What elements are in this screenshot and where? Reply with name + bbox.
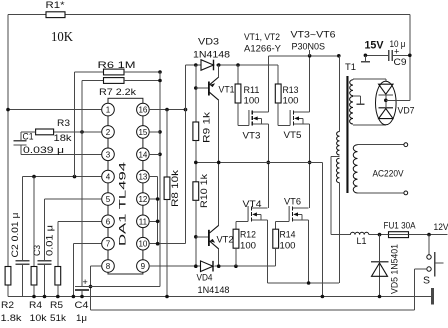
transformer T1 primary winding	[331, 56, 356, 283]
diode VD5 1N5401	[371, 235, 401, 297]
svg-text:14: 14	[138, 150, 147, 159]
svg-text:VT2: VT2	[217, 235, 234, 246]
ground terminal bar	[431, 288, 434, 305]
wire VT6 source riser	[308, 220, 310, 283]
svg-text:4: 4	[106, 173, 111, 182]
resistor R6	[75, 60, 162, 177]
svg-text:1.8k: 1.8k	[1, 313, 22, 323]
resistor R12 100	[233, 222, 256, 267]
svg-text:1N4148: 1N4148	[198, 285, 230, 296]
wire switch bottom contact to remote line	[414, 269, 427, 310]
wire pin3 net	[21, 145, 102, 156]
T1 secondary center tap stub	[353, 96, 365, 104]
svg-text:1N4148: 1N4148	[193, 50, 230, 61]
wire pin12 stub	[149, 197, 159, 201]
svg-text:VD5 1N5401: VD5 1N5401	[390, 244, 401, 294]
label VT3~VT6 P30N0S	[291, 30, 336, 53]
inductor L1	[350, 232, 368, 247]
wire pin8 riser	[89, 266, 102, 310]
wire VT3 drain riser	[267, 56, 269, 112]
U1 pin 3	[102, 148, 115, 161]
svg-text:5: 5	[106, 195, 111, 204]
svg-text:8: 8	[106, 262, 111, 271]
transistor VT5 (MOSFET)	[278, 110, 309, 141]
wire VT3 source to VT4 drain	[267, 124, 271, 208]
svg-text:C1: C1	[23, 131, 34, 142]
svg-text:100: 100	[244, 96, 260, 107]
transformer T1 output winding AC220V	[353, 145, 404, 193]
svg-text:0.01 μ: 0.01 μ	[45, 225, 56, 256]
svg-text:100: 100	[280, 241, 296, 252]
wire source bus y=283	[268, 281, 340, 285]
capacitor C9 10u	[389, 39, 412, 68]
svg-text:AC220V: AC220V	[373, 169, 405, 180]
wire pin11 stub	[149, 220, 159, 224]
svg-text:R8 10k: R8 10k	[170, 170, 181, 207]
svg-text:DA1 TL494: DA1 TL494	[118, 162, 129, 246]
svg-text:VT1, VT2: VT1, VT2	[244, 32, 280, 43]
transistor VT4 (MOSFET)	[236, 199, 268, 222]
U1 pin 8	[102, 260, 115, 273]
wire bus A x=185.5	[185, 65, 187, 244]
svg-text:10K: 10K	[51, 29, 73, 44]
svg-text:1μ: 1μ	[76, 313, 87, 323]
transistor VT3 (MOSFET)	[238, 110, 268, 142]
op-amp U1 DA1 TL494 body	[108, 98, 143, 274]
svg-text:R7 2.2k: R7 2.2k	[99, 87, 136, 98]
switch S	[423, 235, 444, 287]
svg-text:12V: 12V	[434, 222, 448, 233]
terminal AC220V top	[404, 143, 408, 147]
node 15V supply stub	[361, 40, 389, 62]
capacitor C4	[75, 277, 161, 324]
wire VT5 drain riser	[309, 56, 311, 112]
svg-text:10: 10	[138, 240, 147, 249]
svg-text:VT6: VT6	[284, 197, 301, 208]
svg-text:0.039 μ: 0.039 μ	[23, 145, 64, 156]
svg-text:100: 100	[283, 96, 299, 107]
svg-text:+: +	[83, 277, 88, 287]
wire left vertical bus x=8	[7, 15, 9, 297]
wire pin16 net	[149, 108, 187, 112]
transformer T1 core	[346, 76, 348, 193]
svg-text:C4: C4	[75, 300, 89, 311]
resistor R3	[36, 118, 72, 144]
resistor R8	[164, 110, 181, 297]
wire top feedback rail	[8, 14, 410, 16]
resistor R7	[82, 78, 160, 132]
resistor R1	[46, 0, 74, 44]
U1 pin 13	[137, 170, 150, 183]
U1 pin 11	[137, 215, 150, 228]
svg-text:9: 9	[141, 262, 146, 271]
wire bus R6/R7/p15/p14 to C4 x=160	[158, 72, 162, 287]
wire pin15 stub	[149, 131, 160, 133]
svg-text:C2 0.01 μ: C2 0.01 μ	[10, 213, 21, 258]
U1 pin 6	[102, 215, 115, 228]
wire gate rail top y=65	[186, 63, 279, 67]
diode VD3 1N4148	[193, 37, 230, 71]
svg-text:S: S	[423, 276, 430, 287]
U1 pin 9	[137, 260, 150, 273]
wire pin6 net	[58, 220, 102, 222]
svg-text:+: +	[394, 46, 399, 56]
svg-text:15V: 15V	[365, 40, 385, 52]
transformer T1 secondary winding (15V)	[350, 79, 386, 125]
svg-text:FU1 30A: FU1 30A	[384, 221, 417, 232]
fuse FU1 30A	[384, 221, 417, 238]
svg-text:12: 12	[138, 195, 147, 204]
wire pin13 chain	[149, 177, 157, 244]
svg-text:100: 100	[240, 241, 256, 252]
wire pin1 to left bus	[6, 108, 102, 112]
svg-text:R13: R13	[283, 85, 299, 96]
svg-text:VD4: VD4	[197, 273, 213, 284]
resistor R10 1k	[193, 162, 210, 266]
svg-text:R14: R14	[280, 230, 296, 241]
svg-text:51k: 51k	[50, 313, 66, 323]
svg-text:VT3: VT3	[243, 131, 261, 142]
svg-text:11: 11	[139, 217, 148, 226]
capacitor C2	[10, 177, 30, 297]
U1 pin 10	[137, 237, 150, 250]
resistor R9 1k	[193, 112, 213, 163]
wire bus C4/pin2 x=82	[81, 132, 83, 287]
capacitor C3	[32, 199, 56, 297]
resistor R5	[50, 221, 66, 324]
svg-text:18k: 18k	[54, 133, 72, 144]
U1 pin 15	[137, 126, 150, 139]
wire pin4 net	[23, 175, 102, 179]
U1 pin 16	[137, 103, 150, 116]
wire VT4 source riser	[267, 220, 269, 283]
svg-text:16: 16	[138, 106, 147, 115]
wire ground rail	[8, 295, 432, 299]
wire bottom remote line y=309.8	[91, 309, 415, 311]
svg-text:15: 15	[138, 128, 147, 137]
svg-text:R2: R2	[1, 300, 14, 311]
svg-text:R12: R12	[240, 230, 256, 241]
U1 pin 7	[102, 237, 115, 250]
svg-text:P30N0S: P30N0S	[292, 42, 326, 53]
svg-text:VD3: VD3	[198, 37, 219, 48]
svg-text:R11: R11	[244, 85, 260, 96]
U1 pin 2	[102, 126, 115, 139]
terminal AC220V bottom	[404, 191, 408, 195]
svg-text:2: 2	[106, 128, 111, 137]
svg-text:R10 1k: R10 1k	[199, 174, 210, 208]
resistor R2	[1, 267, 22, 325]
resistor R13 100	[275, 65, 298, 126]
diode VD4 1N4148	[194, 261, 276, 296]
U1 pin 12	[137, 193, 150, 206]
wire pin9 to VD4	[149, 265, 200, 267]
svg-text:L1: L1	[357, 236, 367, 247]
svg-text:R5: R5	[50, 300, 63, 311]
resistor R14 100	[273, 222, 296, 267]
label VT1,VT2 A1266-Y	[244, 32, 282, 55]
svg-text:10k: 10k	[30, 313, 47, 323]
resistor R11 100	[235, 65, 259, 126]
wire VT5 source to VT6 drain	[308, 124, 312, 208]
svg-text:A1266-Y: A1266-Y	[244, 44, 282, 55]
label 12V	[434, 222, 448, 233]
svg-text:6: 6	[106, 217, 111, 226]
resistor R4	[29, 177, 47, 324]
U1 pin 14	[137, 148, 150, 161]
capacitor C1	[14, 131, 36, 154]
wire 12V rail	[369, 233, 448, 237]
transistor VT1	[194, 65, 235, 162]
U1 pin 4	[102, 170, 115, 183]
svg-text:R9 1k: R9 1k	[202, 112, 213, 143]
svg-text:VD7: VD7	[398, 106, 415, 117]
U1 pin 1	[102, 103, 115, 116]
svg-text:VT1: VT1	[219, 85, 235, 96]
wire gate return y=162.4	[194, 161, 322, 297]
svg-text:T1: T1	[345, 62, 356, 73]
wire pin10 to bus A	[149, 242, 185, 246]
svg-text:C3: C3	[32, 245, 43, 256]
svg-text:VT5: VT5	[284, 130, 302, 141]
svg-text:R1*: R1*	[46, 0, 65, 11]
svg-text:R6 1M: R6 1M	[98, 60, 136, 71]
transistor VT2	[196, 162, 234, 266]
svg-text:R4: R4	[29, 300, 42, 311]
wire primary tap riser to 12V rail	[331, 157, 350, 235]
diode VD7 dual rectifier	[376, 81, 415, 125]
svg-text:7: 7	[106, 240, 111, 249]
wire pin5 net	[45, 198, 102, 200]
wire top-right vertical x=409.8	[409, 15, 411, 101]
svg-text:1: 1	[106, 106, 111, 115]
wire pin14 stub	[149, 153, 160, 155]
wire pin2 net	[53, 130, 101, 134]
transistor VT6 (MOSFET)	[276, 197, 309, 222]
wire pin7 to ground	[73, 244, 101, 297]
U1 pin 5	[102, 193, 115, 206]
wire drain rail y=55.8	[268, 50, 340, 58]
svg-text:3: 3	[106, 150, 111, 159]
svg-text:R3: R3	[57, 118, 70, 129]
svg-text:13: 13	[138, 173, 147, 182]
svg-text:VT4: VT4	[243, 199, 262, 210]
svg-text:VT3~VT6: VT3~VT6	[291, 30, 336, 41]
svg-text:C9: C9	[394, 57, 407, 68]
